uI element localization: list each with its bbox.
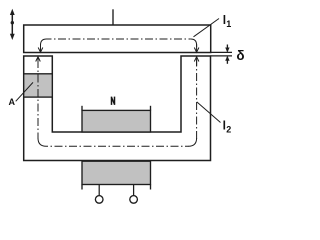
svg-text:A: A (9, 97, 16, 107)
svg-text:2: 2 (226, 124, 231, 134)
svg-text:1: 1 (226, 19, 231, 29)
svg-text:δ: δ (236, 48, 244, 63)
